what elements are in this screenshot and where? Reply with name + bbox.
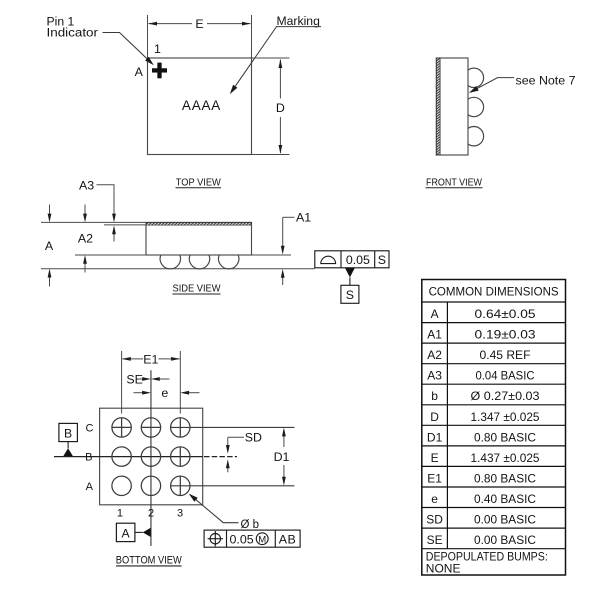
row C extension line to D1 xyxy=(170,426,294,428)
svg-text:A3: A3 xyxy=(427,369,442,383)
dimension A1 xyxy=(283,217,295,285)
ball diameter callout Ø b xyxy=(190,495,239,523)
svg-text:S: S xyxy=(346,288,354,302)
svg-text:Indicator: Indicator xyxy=(47,26,99,40)
table rows xyxy=(426,307,540,547)
leader: pin 1 indicator xyxy=(103,33,153,64)
svg-text:E: E xyxy=(431,451,439,465)
svg-text:D1: D1 xyxy=(427,430,443,444)
position feature control frame xyxy=(204,530,300,547)
svg-text:0.00 BASIC: 0.00 BASIC xyxy=(474,533,536,547)
solder ball B1 xyxy=(112,447,131,466)
pin 1 indicator cross xyxy=(152,63,167,79)
svg-text:1: 1 xyxy=(117,508,123,520)
leader: marking xyxy=(231,27,321,93)
svg-text:1.347 ±0.025: 1.347 ±0.025 xyxy=(471,410,540,424)
svg-text:FRONT VIEW: FRONT VIEW xyxy=(426,177,482,188)
svg-text:AAAA: AAAA xyxy=(182,98,221,113)
front view hatched left edge xyxy=(436,58,440,155)
svg-text:A: A xyxy=(45,239,54,253)
svg-text:0.45 REF: 0.45 REF xyxy=(480,348,531,362)
svg-text:D1: D1 xyxy=(274,450,290,464)
view label FRONT VIEW xyxy=(426,177,483,188)
column extension lines 1 and 3 xyxy=(122,351,181,414)
centerline row B xyxy=(54,456,237,458)
row labels C B A xyxy=(85,422,94,493)
top view package body outline xyxy=(148,58,252,155)
svg-text:B: B xyxy=(64,426,72,440)
solder ball C2 xyxy=(141,418,160,437)
svg-text:0.80 BASIC: 0.80 BASIC xyxy=(474,471,536,485)
seating plane line xyxy=(41,268,315,270)
svg-text:SD: SD xyxy=(426,513,443,527)
svg-text:e: e xyxy=(161,386,168,400)
svg-text:Ø 0.27±0.03: Ø 0.27±0.03 xyxy=(471,389,540,403)
svg-text:see Note 7: see Note 7 xyxy=(516,73,576,87)
svg-text:M: M xyxy=(258,534,266,545)
svg-text:SE: SE xyxy=(126,373,143,387)
solder ball B2 xyxy=(141,447,160,466)
svg-text:C: C xyxy=(86,422,94,434)
side view bumps xyxy=(160,255,239,269)
svg-text:A1: A1 xyxy=(296,211,311,225)
side view body xyxy=(146,222,252,255)
svg-text:0.64±0.05: 0.64±0.05 xyxy=(475,307,536,321)
seating plane feature control frame xyxy=(315,251,389,268)
side view top hatch layer (A3) xyxy=(146,222,252,225)
datum S symbol xyxy=(341,268,359,304)
svg-text:1: 1 xyxy=(154,42,161,56)
dimension A xyxy=(49,205,51,287)
svg-text:0.05: 0.05 xyxy=(346,253,370,267)
bottom view outline xyxy=(100,408,203,505)
svg-text:S: S xyxy=(378,253,386,267)
svg-text:AB: AB xyxy=(279,532,297,546)
svg-text:b: b xyxy=(431,389,438,403)
solder ball A1 xyxy=(112,476,131,495)
svg-text:0.04 BASIC: 0.04 BASIC xyxy=(476,369,535,383)
svg-text:COMMON DIMENSIONS: COMMON DIMENSIONS xyxy=(429,285,559,299)
svg-text:Ø b: Ø b xyxy=(241,517,260,531)
svg-text:A2: A2 xyxy=(78,232,93,246)
solder ball B3 xyxy=(171,447,190,466)
svg-text:D: D xyxy=(430,410,439,424)
view label BOTTOM VIEW xyxy=(116,554,182,566)
svg-text:E1: E1 xyxy=(427,471,442,485)
svg-text:BOTTOM VIEW: BOTTOM VIEW xyxy=(116,554,182,566)
extension lines at body bottom xyxy=(75,254,291,256)
view label SIDE VIEW xyxy=(173,284,221,295)
svg-text:TOP VIEW: TOP VIEW xyxy=(176,177,221,188)
svg-text:0.00 BASIC: 0.00 BASIC xyxy=(474,513,536,527)
dimension A2 xyxy=(84,205,86,273)
table note: depopulated bumps xyxy=(426,550,548,576)
dimension e xyxy=(134,392,200,394)
front view body xyxy=(436,58,468,155)
datum A xyxy=(116,523,150,541)
centerline column 2 xyxy=(150,370,152,546)
label: Pin 1 Indicator xyxy=(47,14,99,39)
dimension D1 xyxy=(283,436,285,478)
svg-text:0.19±0.03: 0.19±0.03 xyxy=(475,328,536,342)
svg-text:0.80 BASIC: 0.80 BASIC xyxy=(474,430,536,444)
svg-text:E: E xyxy=(195,17,203,31)
svg-text:SD: SD xyxy=(245,431,262,445)
svg-text:A: A xyxy=(86,481,94,493)
svg-text:SIDE VIEW: SIDE VIEW xyxy=(173,284,221,295)
dimension D xyxy=(252,58,290,155)
svg-text:A: A xyxy=(122,526,131,540)
svg-text:A3: A3 xyxy=(79,179,94,193)
side view extension lines (top) xyxy=(41,222,146,225)
svg-text:3: 3 xyxy=(177,508,183,520)
svg-text:e: e xyxy=(431,492,438,506)
solder ball C1 xyxy=(112,418,131,437)
svg-text:2: 2 xyxy=(148,508,154,520)
svg-text:NONE: NONE xyxy=(426,562,461,576)
row A extension line to D1 xyxy=(170,485,294,487)
svg-text:A2: A2 xyxy=(427,348,442,362)
svg-text:A: A xyxy=(135,65,144,79)
dimension E1 xyxy=(122,358,179,360)
svg-text:Marking: Marking xyxy=(277,14,320,28)
view label TOP VIEW xyxy=(176,177,222,188)
datum B xyxy=(59,423,78,456)
svg-text:SE: SE xyxy=(427,533,443,547)
svg-text:A1: A1 xyxy=(427,328,442,342)
column labels 1 2 3 xyxy=(117,508,183,520)
dimension E xyxy=(148,15,252,58)
svg-text:0.40 BASIC: 0.40 BASIC xyxy=(474,492,536,506)
dimensions table grid xyxy=(422,280,566,576)
svg-text:A: A xyxy=(431,307,439,321)
svg-text:0.05: 0.05 xyxy=(230,532,254,546)
solder ball A2 xyxy=(141,476,160,495)
svg-text:B: B xyxy=(85,452,92,464)
svg-text:E1: E1 xyxy=(143,353,158,367)
front view solder bumps xyxy=(464,68,483,146)
svg-text:D: D xyxy=(276,101,285,115)
solder ball A3 xyxy=(171,476,190,495)
solder ball C3 xyxy=(171,418,190,437)
svg-text:1.437 ±0.025: 1.437 ±0.025 xyxy=(471,451,540,465)
